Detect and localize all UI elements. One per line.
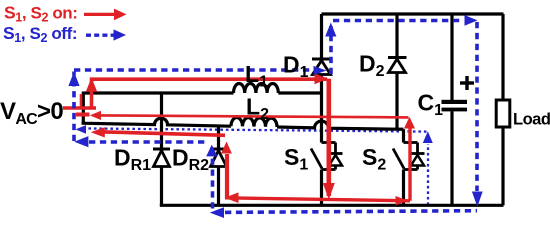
- svg-text:S1, S2 on:: S1, S2 on:: [4, 2, 78, 24]
- svg-text:Load: Load: [513, 111, 550, 129]
- svg-text:S1, S2 off:: S1, S2 off:: [3, 23, 77, 45]
